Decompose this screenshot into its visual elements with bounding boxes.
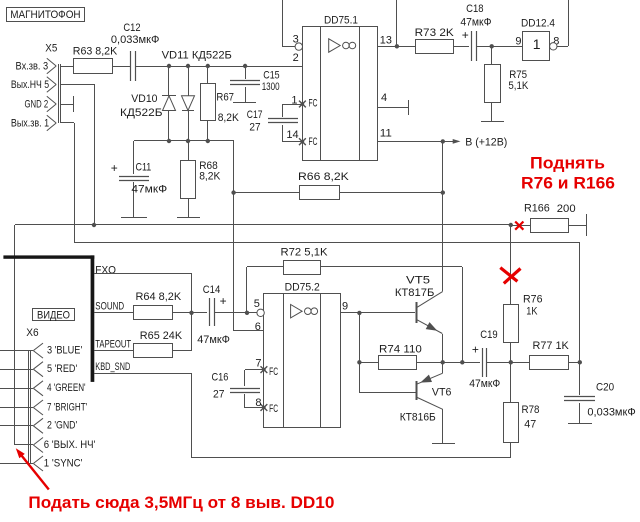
svg-text:FC: FC bbox=[309, 98, 318, 110]
svg-text:3: 3 bbox=[293, 34, 299, 46]
svg-text:7 'BRIGHT': 7 'BRIGHT' bbox=[47, 401, 87, 413]
svg-text:47мкФ: 47мкФ bbox=[460, 17, 491, 29]
svg-text:X5: X5 bbox=[45, 43, 57, 55]
svg-text:4: 4 bbox=[381, 92, 387, 104]
svg-text:МАГНИТОФОН: МАГНИТОФОН bbox=[10, 9, 80, 21]
svg-text:В (+12В): В (+12В) bbox=[465, 137, 507, 149]
svg-text:1: 1 bbox=[291, 94, 297, 106]
svg-text:R74 110: R74 110 bbox=[379, 343, 422, 355]
svg-text:C15: C15 bbox=[263, 70, 279, 82]
svg-text:VT5: VT5 bbox=[406, 275, 430, 287]
svg-text:1K: 1K bbox=[526, 305, 538, 317]
svg-text:1300: 1300 bbox=[262, 81, 280, 93]
svg-text:R65 24K: R65 24K bbox=[140, 330, 183, 342]
svg-text:+: + bbox=[472, 343, 479, 357]
svg-text:Подать сюда 3,5МГц от 8 выв. D: Подать сюда 3,5МГц от 8 выв. DD10 bbox=[28, 494, 334, 512]
svg-text:2 'GND': 2 'GND' bbox=[47, 420, 77, 432]
svg-text:DD75.2: DD75.2 bbox=[285, 281, 320, 293]
svg-text:R72 5,1K: R72 5,1K bbox=[281, 246, 329, 258]
svg-text:ВИДЕО: ВИДЕО bbox=[37, 309, 70, 321]
svg-text:DD12.4: DD12.4 bbox=[521, 17, 555, 29]
svg-text:VD11 КД522Б: VD11 КД522Б bbox=[162, 50, 232, 62]
svg-text:11: 11 bbox=[380, 127, 392, 139]
svg-text:Вых.НЧ 5: Вых.НЧ 5 bbox=[11, 79, 49, 91]
svg-text:KBD_SND: KBD_SND bbox=[95, 361, 130, 373]
svg-text:X6: X6 bbox=[26, 327, 38, 339]
svg-text:14: 14 bbox=[286, 129, 298, 141]
svg-text:DD75.1: DD75.1 bbox=[324, 14, 358, 26]
svg-text:47мкФ: 47мкФ bbox=[131, 184, 167, 196]
svg-text:47: 47 bbox=[524, 419, 536, 431]
svg-text:8,2K: 8,2K bbox=[218, 112, 240, 124]
svg-text:TAPEOUT: TAPEOUT bbox=[95, 339, 131, 351]
svg-text:9: 9 bbox=[515, 35, 521, 47]
svg-text:Вх.зв. 3: Вх.зв. 3 bbox=[16, 60, 49, 72]
svg-text:C14: C14 bbox=[203, 284, 221, 296]
svg-text:9: 9 bbox=[342, 301, 348, 313]
svg-text:2: 2 bbox=[293, 52, 299, 64]
svg-text:+: + bbox=[462, 28, 469, 42]
svg-text:C19: C19 bbox=[480, 329, 497, 341]
svg-text:1 'SYNC': 1 'SYNC' bbox=[44, 457, 83, 469]
svg-text:FC: FC bbox=[269, 366, 278, 378]
svg-text:C17: C17 bbox=[247, 109, 263, 121]
svg-text:5 'RED': 5 'RED' bbox=[47, 363, 77, 375]
svg-text:47мкФ: 47мкФ bbox=[469, 378, 500, 390]
svg-text:КТ816Б: КТ816Б bbox=[400, 411, 436, 423]
svg-text:200: 200 bbox=[557, 203, 576, 215]
svg-text:Поднять: Поднять bbox=[530, 154, 605, 173]
svg-text:+: + bbox=[220, 294, 227, 308]
svg-text:C20: C20 bbox=[596, 382, 614, 394]
svg-text:8: 8 bbox=[255, 397, 261, 409]
svg-text:R75: R75 bbox=[509, 69, 527, 81]
svg-text:FXO: FXO bbox=[95, 264, 116, 276]
svg-text:0,033мкФ: 0,033мкФ bbox=[587, 407, 635, 419]
svg-text:+: + bbox=[111, 161, 118, 175]
svg-text:C16: C16 bbox=[212, 372, 229, 384]
svg-text:R63 8,2K: R63 8,2K bbox=[73, 46, 118, 58]
svg-text:4 'GREEN': 4 'GREEN' bbox=[47, 382, 86, 394]
svg-text:3 'BLUE': 3 'BLUE' bbox=[47, 345, 82, 357]
svg-text:R76: R76 bbox=[523, 293, 543, 305]
svg-text:0,033мкФ: 0,033мкФ bbox=[111, 34, 160, 46]
svg-text:R66 8,2K: R66 8,2K bbox=[298, 171, 350, 183]
svg-text:FC: FC bbox=[269, 403, 278, 415]
svg-text:R76 и R166: R76 и R166 bbox=[521, 174, 615, 193]
svg-text:R64 8,2K: R64 8,2K bbox=[136, 291, 182, 303]
svg-text:5: 5 bbox=[254, 298, 260, 310]
svg-text:6 'ВЫХ. НЧ': 6 'ВЫХ. НЧ' bbox=[44, 439, 96, 451]
svg-text:SOUND: SOUND bbox=[95, 300, 124, 312]
svg-text:FC: FC bbox=[309, 136, 318, 148]
svg-text:13: 13 bbox=[380, 34, 392, 46]
svg-text:R67: R67 bbox=[216, 91, 234, 103]
svg-text:C18: C18 bbox=[466, 3, 483, 15]
svg-text:6: 6 bbox=[255, 321, 261, 333]
svg-text:R166: R166 bbox=[524, 203, 550, 215]
svg-text:7: 7 bbox=[255, 358, 261, 370]
svg-text:R78: R78 bbox=[522, 404, 540, 416]
svg-text:8,2K: 8,2K bbox=[199, 171, 221, 183]
svg-text:КТ817Б: КТ817Б bbox=[395, 287, 435, 299]
svg-text:5,1K: 5,1K bbox=[508, 80, 529, 92]
svg-text:КД522Б: КД522Б bbox=[120, 107, 163, 119]
svg-text:VT6: VT6 bbox=[432, 386, 452, 398]
svg-text:R73 2K: R73 2K bbox=[415, 27, 455, 39]
svg-text:27: 27 bbox=[213, 388, 225, 400]
svg-text:VD10: VD10 bbox=[131, 93, 157, 105]
svg-text:Вых.зв. 1: Вых.зв. 1 bbox=[11, 117, 49, 129]
svg-text:27: 27 bbox=[249, 121, 260, 133]
svg-text:1: 1 bbox=[533, 36, 541, 52]
svg-text:GND 2: GND 2 bbox=[25, 98, 49, 110]
svg-text:R77 1K: R77 1K bbox=[533, 340, 570, 352]
svg-text:47мкФ: 47мкФ bbox=[197, 334, 230, 346]
svg-text:C11: C11 bbox=[136, 162, 152, 174]
svg-text:C12: C12 bbox=[123, 22, 140, 34]
